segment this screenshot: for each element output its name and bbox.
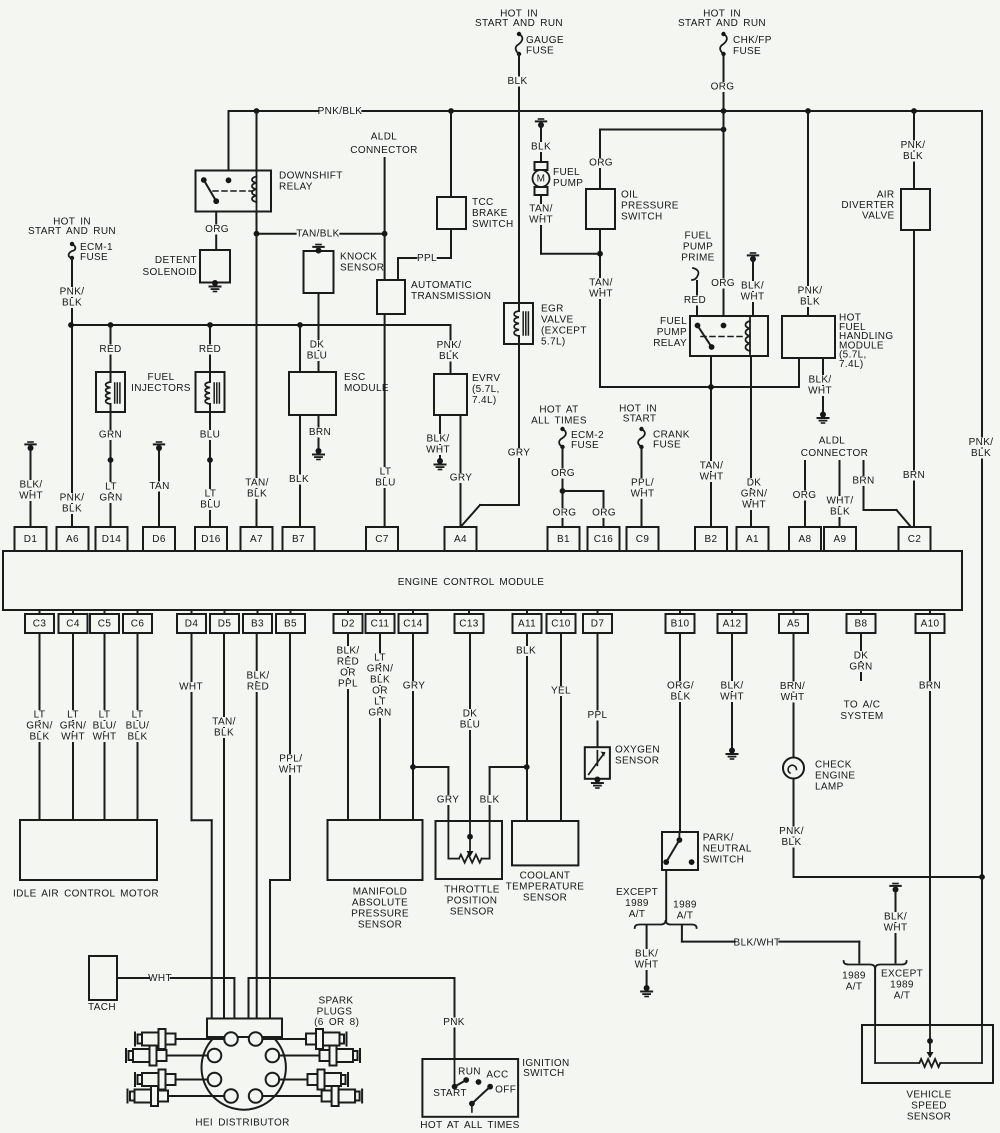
svg-text:IDLE AIR CONTROL MOTOR: IDLE AIR CONTROL MOTOR: [13, 889, 159, 900]
svg-text:SWITCH: SWITCH: [472, 219, 514, 230]
svg-text:THROTTLE: THROTTLE: [444, 885, 500, 896]
svg-text:7.4L): 7.4L): [839, 359, 864, 370]
svg-text:BLK/: BLK/: [720, 681, 743, 692]
svg-text:C4: C4: [66, 619, 80, 630]
svg-text:WHT: WHT: [631, 489, 655, 500]
svg-text:BLK/: BLK/: [808, 375, 831, 386]
svg-text:BLK: BLK: [30, 732, 50, 743]
svg-text:ORG/: ORG/: [667, 681, 694, 692]
svg-text:GRN/: GRN/: [60, 721, 86, 732]
svg-text:WHT: WHT: [61, 732, 85, 743]
svg-text:OIL: OIL: [621, 190, 638, 201]
svg-text:PARK/: PARK/: [703, 833, 734, 844]
svg-text:PRIME: PRIME: [681, 253, 714, 264]
svg-text:ORG: ORG: [205, 224, 229, 235]
svg-text:ORG: ORG: [551, 468, 575, 479]
svg-text:WHT: WHT: [742, 500, 766, 511]
svg-text:BLK: BLK: [903, 151, 923, 162]
svg-text:BLU: BLU: [307, 351, 328, 362]
svg-text:WHT: WHT: [148, 973, 172, 984]
svg-text:WHT: WHT: [635, 960, 659, 971]
svg-text:TACH: TACH: [88, 1002, 116, 1013]
svg-text:INJECTORS: INJECTORS: [131, 383, 191, 394]
svg-text:BLK/: BLK/: [19, 480, 42, 491]
svg-text:A/T: A/T: [629, 909, 646, 920]
svg-text:PPL: PPL: [588, 710, 608, 721]
svg-text:BLU: BLU: [375, 478, 396, 489]
svg-text:BLK: BLK: [671, 692, 691, 703]
svg-text:A10: A10: [921, 619, 940, 630]
svg-text:PUMP: PUMP: [657, 327, 687, 338]
svg-text:PNK/: PNK/: [779, 826, 804, 837]
svg-text:LT: LT: [132, 710, 144, 721]
svg-text:D1: D1: [24, 534, 38, 545]
svg-text:ACC: ACC: [486, 1070, 508, 1081]
svg-text:FUEL: FUEL: [685, 231, 712, 242]
svg-text:PPL/: PPL/: [279, 754, 302, 765]
svg-text:TAN/: TAN/: [700, 461, 723, 472]
svg-text:BLK: BLK: [439, 351, 459, 362]
svg-text:YEL: YEL: [551, 686, 571, 697]
svg-text:LT: LT: [374, 697, 386, 708]
svg-text:LT: LT: [34, 710, 46, 721]
svg-text:START AND RUN: START AND RUN: [678, 18, 766, 29]
svg-text:WHT/: WHT/: [827, 496, 854, 507]
svg-text:1989: 1989: [890, 980, 914, 991]
svg-text:WHT: WHT: [529, 215, 553, 226]
svg-text:BLK/: BLK/: [426, 434, 449, 445]
svg-text:PPL: PPL: [338, 679, 358, 690]
svg-text:C3: C3: [33, 619, 47, 630]
svg-text:BLK: BLK: [214, 728, 234, 739]
svg-text:CONNECTOR: CONNECTOR: [801, 448, 868, 459]
svg-text:BLK: BLK: [971, 448, 991, 459]
svg-text:TO A/C: TO A/C: [844, 700, 881, 711]
svg-text:TEMPERATURE: TEMPERATURE: [506, 882, 585, 893]
svg-text:WHT: WHT: [720, 692, 744, 703]
svg-text:D5: D5: [218, 619, 232, 630]
svg-text:FUEL: FUEL: [660, 316, 687, 327]
svg-text:EXCEPT: EXCEPT: [616, 887, 658, 898]
svg-text:BRAKE: BRAKE: [472, 208, 508, 219]
svg-text:START AND RUN: START AND RUN: [475, 18, 563, 29]
svg-text:RED: RED: [337, 657, 359, 668]
svg-text:AUTOMATIC: AUTOMATIC: [411, 280, 472, 291]
svg-text:B10: B10: [671, 619, 690, 630]
svg-text:PPL/: PPL/: [631, 478, 654, 489]
svg-text:GRN/: GRN/: [367, 664, 393, 675]
svg-text:ORG: ORG: [589, 158, 613, 169]
svg-text:GRY: GRY: [403, 681, 426, 692]
svg-text:BRN/: BRN/: [780, 681, 805, 692]
svg-text:BLU: BLU: [460, 720, 481, 731]
svg-text:A8: A8: [799, 534, 812, 545]
svg-text:ESC: ESC: [344, 372, 366, 383]
svg-text:RELAY: RELAY: [279, 182, 313, 193]
svg-text:BLU: BLU: [200, 430, 221, 441]
svg-text:PLUGS: PLUGS: [317, 1007, 353, 1018]
svg-text:VEHICLE: VEHICLE: [906, 1090, 951, 1101]
svg-text:A7: A7: [250, 534, 263, 545]
svg-text:PNK/: PNK/: [437, 340, 462, 351]
svg-text:GRY: GRY: [450, 473, 473, 484]
svg-text:WHT: WHT: [884, 923, 908, 934]
svg-text:B7: B7: [292, 534, 305, 545]
svg-text:C7: C7: [375, 534, 389, 545]
svg-text:B2: B2: [705, 534, 718, 545]
svg-text:SENSOR: SENSOR: [907, 1112, 951, 1123]
svg-text:BLK: BLK: [62, 504, 82, 515]
svg-text:START: START: [433, 1088, 467, 1099]
svg-text:PUMP: PUMP: [553, 178, 583, 189]
svg-text:1989: 1989: [673, 900, 697, 911]
svg-text:MANIFOLD: MANIFOLD: [353, 887, 407, 898]
svg-text:PRESSURE: PRESSURE: [621, 201, 679, 212]
svg-text:BLK/: BLK/: [336, 646, 359, 657]
svg-text:WHT: WHT: [93, 732, 117, 743]
svg-text:BRN: BRN: [309, 427, 331, 438]
svg-text:B5: B5: [284, 619, 297, 630]
svg-text:C9: C9: [636, 534, 650, 545]
svg-text:RED: RED: [99, 344, 121, 355]
svg-text:PUMP: PUMP: [683, 242, 713, 253]
svg-text:ORG: ORG: [592, 508, 616, 519]
svg-text:C14: C14: [403, 619, 422, 630]
svg-text:SENSOR: SENSOR: [358, 920, 402, 931]
svg-text:TAN/: TAN/: [589, 278, 612, 289]
svg-text:A/T: A/T: [894, 991, 911, 1002]
svg-text:BLK: BLK: [289, 474, 309, 485]
svg-text:WHT: WHT: [279, 765, 303, 776]
svg-text:EVRV: EVRV: [472, 373, 500, 384]
svg-text:B1: B1: [557, 534, 570, 545]
svg-text:RUN: RUN: [458, 1067, 481, 1078]
svg-text:WHT: WHT: [781, 692, 805, 703]
svg-text:LT: LT: [99, 710, 111, 721]
svg-text:FUSE: FUSE: [653, 440, 681, 451]
svg-text:B3: B3: [251, 619, 264, 630]
svg-text:POSITION: POSITION: [447, 896, 498, 907]
svg-text:ABSOLUTE: ABSOLUTE: [352, 898, 408, 909]
svg-text:BLK: BLK: [128, 732, 148, 743]
svg-text:RELAY: RELAY: [653, 338, 687, 349]
svg-text:HEI DISTRIBUTOR: HEI DISTRIBUTOR: [195, 1118, 289, 1129]
svg-text:1989: 1989: [842, 971, 866, 982]
svg-text:PNK/: PNK/: [60, 287, 85, 298]
svg-text:C11: C11: [371, 619, 390, 630]
svg-text:FUSE: FUSE: [733, 46, 761, 57]
svg-text:BRN: BRN: [903, 470, 925, 481]
svg-text:ENGINE: ENGINE: [815, 771, 855, 782]
svg-text:ALDL: ALDL: [371, 132, 398, 143]
svg-text:SPEED: SPEED: [911, 1101, 947, 1112]
svg-text:LT: LT: [205, 489, 217, 500]
svg-text:WHT: WHT: [741, 292, 765, 303]
svg-text:CHK/FP: CHK/FP: [733, 35, 772, 46]
svg-text:DK: DK: [310, 340, 325, 351]
svg-text:BLK: BLK: [516, 646, 536, 657]
svg-text:OXYGEN: OXYGEN: [615, 745, 660, 756]
svg-text:B8: B8: [855, 619, 868, 630]
svg-text:NEUTRAL: NEUTRAL: [703, 844, 752, 855]
svg-text:(6 OR 8): (6 OR 8): [314, 1017, 359, 1028]
svg-text:TAN/: TAN/: [245, 478, 268, 489]
svg-text:BLK/: BLK/: [246, 671, 269, 682]
svg-text:WHT: WHT: [589, 289, 613, 300]
svg-text:D16: D16: [201, 534, 220, 545]
svg-text:COOLANT: COOLANT: [520, 871, 571, 882]
svg-text:LT: LT: [374, 653, 386, 664]
svg-text:ALL TIMES: ALL TIMES: [531, 416, 587, 427]
svg-text:A9: A9: [834, 534, 847, 545]
svg-text:(EXCEPT: (EXCEPT: [541, 326, 587, 337]
svg-text:BLK: BLK: [247, 489, 267, 500]
svg-text:PNK/: PNK/: [901, 140, 926, 151]
svg-text:A1: A1: [746, 534, 759, 545]
svg-text:ORG: ORG: [711, 82, 735, 93]
svg-text:DK: DK: [854, 651, 869, 662]
svg-text:ORG: ORG: [793, 490, 817, 501]
svg-text:VALVE: VALVE: [862, 211, 895, 222]
svg-text:GRN/: GRN/: [26, 721, 52, 732]
svg-text:ALDL: ALDL: [819, 436, 846, 447]
svg-text:BLU: BLU: [200, 500, 221, 511]
svg-text:HOT AT ALL TIMES: HOT AT ALL TIMES: [420, 1120, 519, 1131]
svg-text:GRN/: GRN/: [741, 489, 767, 500]
svg-text:TCC: TCC: [472, 197, 494, 208]
svg-text:SENSOR: SENSOR: [523, 893, 567, 904]
svg-text:A11: A11: [518, 619, 536, 630]
svg-text:TAN/: TAN/: [529, 204, 552, 215]
svg-text:M: M: [537, 174, 546, 185]
svg-text:BLK: BLK: [480, 795, 500, 806]
svg-text:PNK: PNK: [443, 1017, 465, 1028]
svg-text:VALVE: VALVE: [541, 315, 574, 326]
svg-text:BLK: BLK: [830, 507, 850, 518]
svg-text:C13: C13: [459, 619, 478, 630]
svg-text:PNK/: PNK/: [798, 286, 823, 297]
svg-text:RED: RED: [247, 682, 269, 693]
svg-text:FUSE: FUSE: [526, 46, 554, 57]
svg-text:BLK: BLK: [370, 675, 390, 686]
svg-text:SPARK: SPARK: [319, 996, 354, 1007]
svg-text:PNK/: PNK/: [969, 437, 994, 448]
svg-text:SENSOR: SENSOR: [615, 756, 659, 767]
svg-text:GRN: GRN: [99, 493, 122, 504]
svg-text:OR: OR: [340, 668, 356, 679]
svg-text:SWITCH: SWITCH: [703, 855, 745, 866]
svg-text:BLK: BLK: [531, 142, 551, 153]
svg-text:A6: A6: [66, 534, 79, 545]
svg-text:LAMP: LAMP: [815, 782, 844, 793]
svg-text:BRN: BRN: [852, 476, 874, 487]
svg-text:GRN: GRN: [99, 430, 122, 441]
svg-text:WHT: WHT: [426, 445, 450, 456]
svg-text:ORG: ORG: [553, 508, 577, 519]
svg-text:C5: C5: [98, 619, 112, 630]
svg-text:FUSE: FUSE: [80, 252, 108, 263]
svg-text:D2: D2: [341, 619, 355, 630]
svg-text:BLK/WHT: BLK/WHT: [734, 938, 781, 949]
svg-text:A/T: A/T: [677, 911, 694, 922]
svg-text:MODULE: MODULE: [344, 383, 389, 394]
svg-text:SWITCH: SWITCH: [523, 1068, 565, 1079]
svg-text:START AND RUN: START AND RUN: [28, 226, 116, 237]
svg-text:EGR: EGR: [541, 304, 564, 315]
svg-text:RED: RED: [199, 344, 221, 355]
svg-text:PRESSURE: PRESSURE: [351, 909, 409, 920]
svg-text:D6: D6: [152, 534, 166, 545]
svg-text:C10: C10: [551, 619, 570, 630]
svg-text:BLK: BLK: [62, 298, 82, 309]
svg-text:SENSOR: SENSOR: [340, 263, 384, 274]
svg-text:FUEL: FUEL: [148, 372, 175, 383]
svg-text:BLK/: BLK/: [884, 912, 907, 923]
svg-text:DIVERTER: DIVERTER: [841, 200, 894, 211]
svg-text:GRY: GRY: [437, 795, 460, 806]
svg-text:TAN: TAN: [149, 481, 169, 492]
svg-text:PNK/: PNK/: [60, 493, 85, 504]
svg-text:CHECK: CHECK: [815, 760, 852, 771]
svg-text:GAUGE: GAUGE: [526, 35, 564, 46]
svg-text:DOWNSHIFT: DOWNSHIFT: [279, 171, 343, 182]
svg-text:OFF: OFF: [495, 1085, 516, 1096]
svg-text:7.4L): 7.4L): [472, 395, 497, 406]
svg-text:GRY: GRY: [508, 448, 531, 459]
svg-text:LT: LT: [105, 482, 117, 493]
svg-text:SYSTEM: SYSTEM: [840, 711, 883, 722]
svg-text:PNK/BLK: PNK/BLK: [318, 106, 363, 117]
svg-text:KNOCK: KNOCK: [340, 252, 377, 263]
svg-text:D7: D7: [591, 619, 605, 630]
svg-text:BLK: BLK: [782, 837, 802, 848]
svg-text:START: START: [623, 414, 657, 425]
svg-text:RED: RED: [684, 295, 706, 306]
svg-text:C2: C2: [908, 534, 922, 545]
svg-text:WHT: WHT: [808, 386, 832, 397]
svg-text:5.7L): 5.7L): [541, 337, 566, 348]
svg-text:PPL: PPL: [417, 253, 437, 264]
svg-text:A/T: A/T: [846, 982, 863, 993]
svg-text:TAN/BLK: TAN/BLK: [296, 229, 339, 240]
svg-text:BLU/: BLU/: [93, 721, 117, 732]
svg-text:DK: DK: [463, 709, 478, 720]
svg-text:GRN: GRN: [368, 708, 391, 719]
svg-text:DETENT: DETENT: [155, 255, 197, 266]
svg-text:FUEL: FUEL: [553, 167, 580, 178]
svg-text:SOLENOID: SOLENOID: [143, 267, 197, 278]
svg-text:1989: 1989: [625, 898, 649, 909]
svg-text:A4: A4: [454, 534, 467, 545]
svg-text:BLK/: BLK/: [635, 949, 658, 960]
svg-text:BLK: BLK: [508, 76, 528, 87]
svg-text:C16: C16: [594, 534, 613, 545]
svg-text:SWITCH: SWITCH: [621, 212, 663, 223]
svg-text:EXCEPT: EXCEPT: [881, 969, 923, 980]
svg-text:(5.7L,: (5.7L,: [472, 384, 500, 395]
svg-text:C6: C6: [131, 619, 145, 630]
svg-text:D4: D4: [185, 619, 199, 630]
svg-text:WHT: WHT: [700, 472, 724, 483]
svg-text:WHT: WHT: [19, 491, 43, 502]
svg-text:ENGINE CONTROL MODULE: ENGINE CONTROL MODULE: [398, 577, 545, 588]
svg-text:BLK/: BLK/: [741, 281, 764, 292]
svg-text:OR: OR: [372, 686, 388, 697]
svg-text:A5: A5: [787, 619, 800, 630]
svg-text:BRN: BRN: [919, 681, 941, 692]
svg-text:HOT AT: HOT AT: [539, 405, 578, 416]
svg-text:GRN: GRN: [849, 662, 872, 673]
svg-text:TAN/: TAN/: [212, 717, 235, 728]
svg-text:D14: D14: [102, 534, 121, 545]
svg-text:LT: LT: [67, 710, 79, 721]
svg-text:TRANSMISSION: TRANSMISSION: [411, 291, 491, 302]
svg-text:ORG: ORG: [711, 278, 735, 289]
svg-text:FUSE: FUSE: [571, 440, 599, 451]
svg-text:LT: LT: [380, 467, 392, 478]
svg-text:SENSOR: SENSOR: [450, 907, 494, 918]
svg-text:BLK: BLK: [800, 297, 820, 308]
svg-text:DK: DK: [747, 478, 762, 489]
svg-text:A12: A12: [723, 619, 742, 630]
svg-text:CONNECTOR: CONNECTOR: [350, 145, 417, 156]
svg-text:BLU/: BLU/: [126, 721, 150, 732]
svg-text:AIR: AIR: [877, 189, 895, 200]
svg-text:WHT: WHT: [179, 682, 203, 693]
